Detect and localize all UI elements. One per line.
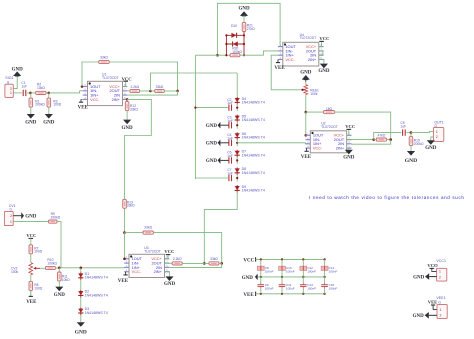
svg-text:100nF: 100nF	[265, 287, 274, 291]
wire U2 2IN+ to ground	[347, 148, 349, 150]
svg-text:GND: GND	[164, 282, 176, 287]
svg-text:100kΩ: 100kΩ	[51, 215, 61, 219]
wire C10 to GND rail	[281, 270, 283, 277]
wire node D up to pump row	[151, 73, 238, 91]
wire node J to R16	[374, 139, 377, 141]
node U3 1OUT junction	[123, 258, 126, 261]
svg-text:100nF: 100nF	[286, 269, 295, 273]
wire node I to R18	[204, 262, 209, 264]
junction pump column C2	[194, 107, 196, 109]
wire R9 to node L	[57, 222, 61, 268]
wire R14 to node N	[153, 233, 221, 264]
junction D11 left	[225, 43, 227, 45]
junction GND rail col4	[324, 276, 326, 278]
svg-text:2.2kΩ: 2.2kΩ	[173, 257, 182, 261]
resistor R1	[29, 98, 33, 107]
ground (R12)	[122, 120, 134, 131]
svg-text:VCC-: VCC-	[132, 269, 142, 274]
svg-text:1N4148WS T4: 1N4148WS T4	[85, 311, 108, 315]
power VEE symbol (U1)	[78, 99, 89, 110]
ground arrow (cap bank)	[255, 274, 258, 281]
svg-text:1N4148WS T4: 1N4148WS T4	[85, 293, 108, 297]
svg-text:100nF: 100nF	[307, 287, 316, 291]
svg-text:100Ω: 100Ω	[34, 250, 43, 254]
op-amp U3 label	[144, 246, 161, 253]
svg-text:G: G	[9, 208, 12, 212]
capacitor C6	[229, 157, 232, 163]
svg-text:VCC: VCC	[243, 258, 254, 263]
wire chain node3 to U2 1IN+	[237, 143, 310, 144]
diode D2	[78, 290, 83, 298]
resistor R19	[409, 137, 413, 146]
wire U2 VCC+ to VCC	[347, 129, 349, 135]
svg-text:1: 1	[10, 220, 12, 224]
svg-text:GND: GND	[75, 329, 87, 335]
wire node F to R20	[195, 54, 230, 56]
power VEE symbol (U4)	[274, 60, 285, 72]
junction VEE rail col3	[302, 293, 304, 295]
node M junction	[80, 267, 83, 270]
wire node G to U2 1OUT	[305, 112, 307, 135]
wire CV1 pin1 to R9	[13, 221, 48, 223]
junction R20 right	[243, 54, 245, 56]
resistor R3	[47, 98, 51, 107]
wire C5 to node K	[406, 132, 411, 134]
capacitor C14	[321, 266, 328, 270]
junction chain node 5	[236, 177, 238, 179]
svg-text:33kΩ: 33kΩ	[127, 204, 135, 208]
wire VCC rail	[256, 258, 326, 260]
junction chain node 4	[236, 159, 238, 161]
capacitor C5	[403, 129, 406, 135]
wire GND rail	[258, 276, 326, 278]
resistor R7	[29, 245, 33, 254]
svg-text:TL072CDT: TL072CDT	[321, 125, 338, 129]
connector VEE1	[437, 304, 447, 318]
VEE bank bar	[255, 292, 257, 296]
resistor R14 33k	[143, 231, 153, 234]
wire C11 to VEE rail	[281, 289, 283, 294]
ground (U4 right)	[318, 64, 330, 74]
node A junction	[29, 92, 32, 95]
trimmer RES1 wiper arrow	[303, 89, 305, 91]
svg-text:GND: GND	[300, 71, 312, 76]
svg-text:1: 1	[10, 91, 12, 95]
ground (R1)	[25, 114, 37, 125]
wire diode left rail (red)	[225, 35, 227, 55]
svg-text:2: 2	[439, 276, 441, 280]
wire top loop	[218, 3, 283, 55]
wire D2 to D3	[80, 297, 82, 308]
wire U3 2IN+ to ground	[165, 272, 170, 277]
svg-text:GND: GND	[43, 120, 55, 125]
ground (D1-D3)	[75, 322, 87, 335]
diode D8	[235, 167, 240, 175]
resistor R11	[58, 272, 62, 281]
wire node D to R6	[151, 90, 155, 92]
node U2 1OUT junction	[305, 134, 308, 137]
svg-text:GND: GND	[12, 67, 24, 72]
svg-text:VEE: VEE	[118, 279, 129, 284]
wire R5 to node D	[140, 90, 151, 92]
wire ground stem (RES1)	[305, 79, 307, 81]
op-amp U1 label	[102, 73, 119, 80]
junction chain node 1	[236, 107, 238, 109]
svg-text:GND: GND	[206, 124, 218, 129]
svg-text:GND: GND	[242, 276, 254, 281]
ground (RES1)	[300, 71, 312, 80]
wire R18 to node N	[219, 262, 222, 264]
junction GND rail col2	[281, 276, 283, 278]
capacitor C13	[300, 285, 307, 287]
node C junction	[176, 90, 179, 93]
potentiometer CV2	[29, 263, 33, 275]
node D junction	[149, 90, 152, 93]
diode D1	[78, 272, 83, 280]
svg-text:100Ω: 100Ω	[34, 286, 43, 290]
svg-text:100nF: 100nF	[329, 287, 338, 291]
capacitor C15 leads	[324, 283, 326, 289]
power VCC symbol (CV2)	[29, 237, 34, 239]
capacitor C3	[229, 122, 232, 128]
diode D11	[233, 41, 238, 46]
svg-text:2: 2	[10, 214, 12, 218]
svg-text:100nF: 100nF	[329, 269, 338, 273]
node G junction	[305, 111, 308, 114]
svg-text:1N4148WS T4: 1N4148WS T4	[242, 171, 265, 175]
junction chain node 3	[236, 142, 238, 144]
svg-text:GND: GND	[318, 69, 330, 74]
wire VCC to C14	[324, 259, 326, 266]
wire CV2 to R8	[30, 275, 32, 282]
junction VCC rail col3	[302, 258, 304, 260]
wire chain node 2	[236, 122, 238, 129]
junction VCC rail col4	[324, 258, 326, 260]
junction D10 right	[243, 34, 245, 36]
svg-text:GND: GND	[405, 158, 417, 164]
wire R21 to diode node (red)	[243, 31, 245, 55]
capacitor C10	[279, 266, 286, 270]
wire SIG1 pin2 to GND	[13, 75, 17, 88]
capacitor C9 leads	[260, 283, 262, 289]
resistor R17 2.2k	[172, 262, 182, 265]
ground (CV1)	[13, 212, 37, 219]
connector VCC1 labels	[436, 259, 446, 267]
wire node J to output row	[374, 133, 402, 140]
diode D11 leads	[226, 43, 244, 45]
svg-text:2IN+: 2IN+	[154, 269, 163, 274]
wire U4 2IN+ to ground	[319, 60, 324, 64]
junction RES1 wiper	[301, 89, 303, 91]
connector SIG1	[5, 84, 13, 97]
junction GND rail col1	[260, 276, 262, 278]
svg-text:VCC-: VCC-	[313, 146, 323, 151]
svg-text:1N4148WS T4: 1N4148WS T4	[242, 118, 265, 122]
node I junction	[203, 262, 206, 265]
wire CV2 wiper to R10	[40, 267, 45, 269]
wire node B to U1 1IN-	[49, 91, 83, 93]
node U1 2IN+ junction	[126, 98, 129, 101]
op-amp U3	[124, 254, 169, 277]
power VCC symbol (U4)	[319, 40, 324, 42]
wire node E to U3 1OUT	[124, 233, 126, 259]
resistor R5 2.2k	[130, 89, 140, 92]
ground (R3)	[43, 114, 55, 125]
connector CV1	[4, 211, 13, 225]
ground (SIG1)	[12, 67, 24, 76]
capacitor C8	[257, 266, 264, 270]
connector OUT1 labels	[434, 120, 444, 128]
wire R15 to node H	[334, 112, 390, 139]
capacitor C2	[229, 104, 232, 110]
resistor R13	[123, 199, 127, 208]
wire GND rail to C11	[281, 277, 283, 283]
ground (R11)	[54, 287, 66, 298]
wire U3 2IN loop	[170, 263, 222, 267]
svg-text:27kΩ: 27kΩ	[247, 27, 255, 31]
wire node L to R11	[58, 268, 60, 272]
svg-text:VEE: VEE	[274, 66, 285, 71]
ground (C3)	[206, 122, 229, 129]
svg-text:100k: 100k	[11, 270, 19, 274]
svg-text:GND: GND	[25, 215, 37, 220]
svg-text:VCC-: VCC-	[90, 97, 100, 102]
wire VCC to R7	[30, 238, 32, 244]
resistor R9	[49, 220, 58, 223]
svg-text:GND: GND	[413, 276, 425, 281]
wire VCC to C10	[281, 259, 283, 266]
wire R11 to ground	[58, 281, 60, 287]
op-amp U1	[83, 81, 128, 105]
svg-text:1: 1	[436, 130, 438, 134]
svg-text:1: 1	[439, 308, 441, 312]
svg-text:SIG1: SIG1	[5, 76, 13, 80]
diode D10	[231, 33, 236, 38]
svg-text:VCC: VCC	[319, 36, 329, 41]
capacitor C11	[279, 285, 286, 287]
svg-text:47kΩ: 47kΩ	[378, 134, 386, 138]
capacitor C15	[321, 285, 328, 287]
capacitor C11 leads	[281, 283, 283, 289]
diode D10 leads	[226, 34, 244, 36]
wire C14 to GND rail	[324, 270, 326, 277]
wire R16 to node H	[387, 139, 391, 141]
svg-text:VCC: VCC	[427, 263, 437, 268]
wire U3 2OUT to R17	[165, 262, 173, 264]
svg-text:2: 2	[439, 314, 441, 318]
wire OUT1 pin2 to ground	[431, 137, 434, 140]
power VEE symbol (U3)	[118, 272, 129, 284]
ground (U3 right)	[164, 276, 176, 287]
svg-text:GND: GND	[206, 142, 218, 147]
junction D11 right	[243, 43, 245, 45]
resistor R8	[29, 281, 33, 290]
svg-text:100k: 100k	[310, 92, 318, 96]
wire GND rail to C15	[324, 277, 326, 283]
wire U2 2OUT to node J	[347, 139, 374, 141]
wire R7 to CV2	[30, 254, 32, 263]
wire R20 to U4 1IN-	[240, 51, 278, 55]
wire U4 VCC+ to VCC	[319, 41, 322, 46]
svg-text:GND: GND	[238, 7, 250, 12]
svg-text:VCC: VCC	[345, 124, 355, 129]
svg-text:1N4148WS T4: 1N4148WS T4	[242, 101, 265, 105]
svg-text:100nF: 100nF	[265, 269, 274, 273]
svg-text:2.2kΩ: 2.2kΩ	[130, 85, 139, 89]
wire chain node 3	[236, 139, 238, 146]
wire node B to R3	[48, 93, 50, 98]
ground (R19)	[405, 151, 417, 164]
wire node H to U2 2IN	[352, 140, 391, 145]
op-amp U2 label	[321, 121, 338, 128]
wire chain bottom	[204, 192, 237, 264]
svg-text:TL072CDT: TL072CDT	[102, 76, 119, 80]
wire ground to R21	[243, 16, 245, 23]
junction GND rail col3	[302, 276, 304, 278]
diode D6	[235, 132, 240, 140]
power VCC symbol (VCC1)	[430, 267, 435, 269]
wire R12 to ground	[126, 111, 128, 120]
wire D1 to D2	[80, 280, 82, 291]
svg-text:2: 2	[436, 135, 438, 139]
svg-text:GND: GND	[425, 146, 437, 151]
wire C9 to VEE rail	[260, 289, 262, 294]
op-amp U4 label	[300, 33, 317, 40]
wire C13 to VEE rail	[302, 289, 304, 294]
capacitor C4	[229, 140, 232, 146]
svg-text:GND: GND	[54, 293, 66, 298]
power VCC symbol (U1)	[123, 80, 128, 82]
node U1 1OUT junction	[81, 85, 84, 88]
wire VCC to C8	[260, 259, 262, 266]
wire U1 feedback up	[82, 62, 99, 87]
svg-text:VCC-: VCC-	[285, 57, 295, 62]
junction chain node 2	[236, 124, 238, 126]
wire node E to R14	[125, 232, 144, 234]
wire pump top feed	[236, 73, 238, 98]
resistor R16 47k	[376, 138, 386, 141]
svg-text:2IN+: 2IN+	[336, 146, 345, 151]
svg-text:33kΩ: 33kΩ	[144, 225, 152, 229]
wire node F corner	[194, 55, 196, 73]
wire chain node 5	[236, 175, 238, 182]
svg-text:100nF: 100nF	[286, 287, 295, 291]
power VCC symbol (U3)	[166, 254, 171, 256]
wire node M to D1	[80, 268, 82, 273]
resistor R15 1k	[324, 111, 335, 114]
svg-text:1uF: 1uF	[400, 125, 406, 129]
capacitor C12	[300, 266, 307, 270]
node E junction	[123, 231, 126, 234]
capacitor C13 leads	[302, 283, 304, 289]
svg-text:100Ω: 100Ω	[53, 103, 62, 107]
node B junction	[48, 92, 51, 95]
wire U1 VCC+ to VCC	[123, 81, 126, 86]
wire U1 2IN loop	[127, 91, 177, 95]
wire C12 to GND rail	[302, 270, 304, 277]
svg-text:GND: GND	[343, 156, 355, 161]
wire C15 to VEE rail	[324, 289, 326, 294]
svg-text:200kΩ: 200kΩ	[35, 103, 45, 107]
junction VEE rail col4	[324, 293, 326, 295]
svg-text:GND: GND	[206, 159, 218, 164]
svg-text:VCC: VCC	[26, 233, 36, 238]
wire VEE rail	[256, 293, 326, 295]
diode D7	[235, 150, 240, 158]
wire pump column	[194, 73, 196, 179]
svg-text:VEE: VEE	[301, 155, 312, 160]
power VEE symbol (U2)	[301, 148, 312, 160]
svg-text:VCC: VCC	[164, 249, 174, 254]
junction VEE rail col2	[281, 293, 283, 295]
junction VEE rail col1	[260, 293, 262, 295]
svg-text:1uF: 1uF	[21, 85, 27, 89]
svg-text:VEE: VEE	[78, 105, 89, 110]
capacitor C1	[23, 90, 26, 96]
wire VCC to VCC1 pin1	[432, 268, 437, 271]
svg-text:VEE: VEE	[428, 300, 437, 305]
svg-text:1N4148WS T4: 1N4148WS T4	[242, 136, 265, 140]
wire C1 to node A	[27, 92, 31, 94]
power VCC bar (cap bank)	[255, 258, 257, 260]
connector SIG1 labels	[5, 76, 13, 84]
junction D10 left	[225, 34, 227, 36]
wire C2 to pump column	[195, 107, 228, 109]
wire chain node 4	[236, 157, 238, 164]
svg-text:100nF: 100nF	[307, 269, 316, 273]
wire C7 to pump column	[195, 178, 228, 179]
svg-text:TL072CDT: TL072CDT	[300, 36, 317, 40]
wire feedback to node C	[109, 62, 177, 91]
wire U4 1IN+ down	[271, 55, 302, 90]
wire node K to OUT1	[411, 132, 433, 133]
diode D4	[235, 97, 240, 105]
resistor R20	[230, 54, 240, 57]
potentiometer CV2 wiper	[33, 267, 40, 270]
node H junction	[389, 138, 392, 141]
node N junction	[220, 262, 223, 265]
svg-text:VEE: VEE	[26, 300, 37, 305]
ground (C4)	[206, 140, 229, 147]
junction VCC rail col2	[281, 258, 283, 260]
svg-text:1: 1	[439, 270, 441, 274]
ground (OUT1)	[425, 140, 437, 151]
diode D5	[235, 115, 240, 123]
svg-text:2IN+: 2IN+	[308, 57, 317, 62]
resistor R4 33k feedback	[99, 60, 109, 63]
wire node A to R1	[30, 93, 32, 98]
wire R1 to ground	[30, 107, 32, 114]
diode D9	[235, 185, 240, 193]
junction R20 left	[225, 54, 227, 56]
trimmer RES1	[304, 85, 308, 95]
wire R2 to node B	[46, 92, 49, 94]
svg-text:VEE1: VEE1	[436, 296, 445, 300]
svg-text:10kΩ: 10kΩ	[62, 278, 70, 282]
wire R3 to ground	[48, 107, 50, 114]
power VCC symbol (U2)	[347, 128, 352, 130]
svg-text:33kΩ: 33kΩ	[100, 55, 108, 59]
node F junction	[216, 54, 219, 57]
power VEE symbol (CV2)	[26, 290, 37, 305]
svg-text:10kΩ: 10kΩ	[37, 86, 45, 90]
wire chain node 1	[236, 104, 238, 111]
wire node G to R15	[306, 111, 324, 113]
wire U1 2OUT to R5	[127, 90, 130, 92]
wire VCC to C12	[302, 259, 304, 266]
power VEE symbol (VEE1)	[431, 305, 437, 310]
ground (VCC1)	[413, 273, 437, 280]
